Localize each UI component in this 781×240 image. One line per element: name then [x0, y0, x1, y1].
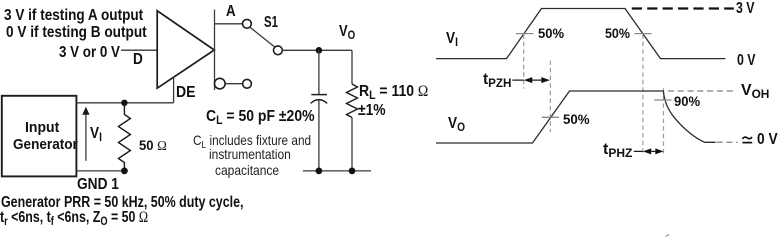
switch S1 contact B right — [243, 79, 252, 88]
wire generator bottom — [76, 170, 124, 172]
wire ground rail — [303, 170, 371, 172]
node label VO — [339, 24, 355, 40]
dashed level 3V — [632, 7, 734, 9]
wire D input — [121, 49, 157, 51]
note CL includes fixture and — [193, 133, 311, 150]
label GND 1 — [77, 177, 119, 193]
switch S1 contact B left — [215, 78, 226, 89]
resistor RL zigzag — [347, 84, 358, 118]
node dot generator top — [121, 100, 127, 106]
value label RL = 110 ohm — [359, 84, 428, 100]
wire DE enable — [173, 77, 175, 103]
wire RL bottom — [351, 118, 353, 171]
pin label A — [226, 4, 236, 20]
approx equal symbol — [742, 137, 752, 139]
label Generator — [13, 137, 78, 152]
node dot CL bottom — [316, 168, 323, 175]
label VI circuit — [90, 126, 102, 142]
label VO waveform — [448, 116, 465, 132]
label tPHZ — [603, 142, 632, 158]
label VI waveform — [446, 31, 458, 47]
label 3V or 0V — [59, 45, 120, 61]
dashed vline fall 50 — [642, 34, 644, 153]
node dot generator bottom — [121, 168, 128, 175]
dashed vline VO 90 — [663, 88, 665, 153]
dashed level near 0V — [717, 141, 738, 143]
label tPZH — [483, 72, 511, 88]
wire VO node horizontal — [282, 49, 352, 51]
arrow tPZH — [512, 79, 541, 81]
dashed level VOH — [668, 90, 736, 92]
note capacitance — [215, 163, 279, 177]
pin label DE — [176, 85, 196, 101]
waveform VI trace — [436, 9, 726, 59]
label 50 percent rise — [538, 26, 564, 40]
value label CL = 50 pF — [206, 109, 315, 125]
level label 0V — [737, 53, 755, 69]
node junction dot VO — [316, 47, 323, 54]
input generator box — [2, 96, 77, 177]
label 90 percent — [674, 94, 700, 108]
tick 50 percent rise VO — [542, 116, 559, 118]
label S1 — [264, 15, 278, 31]
wire CL top — [318, 50, 320, 94]
label 50 percent fall — [605, 26, 630, 40]
waveform VO trace — [436, 91, 716, 143]
dashed vline VO rise 50 — [549, 61, 551, 133]
dashed vline rise 50 — [523, 34, 525, 88]
node dot RL bottom — [349, 168, 356, 175]
switch S1 pole — [274, 46, 283, 55]
note generator PRR — [1, 195, 243, 211]
wire output bus — [214, 10, 216, 90]
stray mark bottom right — [666, 235, 670, 237]
arrow tPHZ — [634, 150, 656, 152]
switch S1 wiper — [250, 27, 275, 47]
wire generator top — [76, 102, 173, 104]
wire B contact link — [225, 83, 242, 85]
arrow VI reference — [85, 113, 87, 161]
tick 50 percent fall VI — [634, 33, 651, 35]
level label VOH — [741, 83, 769, 99]
tick 50 percent rise VI — [516, 33, 534, 35]
op-amp driver U1 triangle — [157, 11, 214, 88]
label 0V if testing B output — [6, 25, 147, 41]
value label plus-minus 1 percent — [358, 103, 386, 119]
level label 3V — [736, 1, 754, 17]
label 3V if testing A output — [4, 8, 143, 24]
note tr tf ZO — [0, 210, 148, 226]
wire CL bottom — [318, 100, 320, 171]
wire A output stub — [215, 23, 243, 25]
capacitor CL top plate — [311, 94, 327, 96]
level label near 0V — [757, 132, 778, 148]
value label 50 ohm — [139, 138, 167, 154]
capacitor CL bottom curved plate — [311, 100, 328, 104]
note instrumentation — [209, 147, 291, 161]
tick 90 percent VO — [654, 99, 672, 101]
wire RL top — [351, 50, 353, 84]
label Input — [25, 120, 59, 135]
label 50 percent VO — [563, 112, 590, 126]
resistor 50ohm zigzag — [118, 103, 130, 171]
switch S1 contact A — [243, 19, 252, 28]
pin label D — [133, 52, 143, 68]
